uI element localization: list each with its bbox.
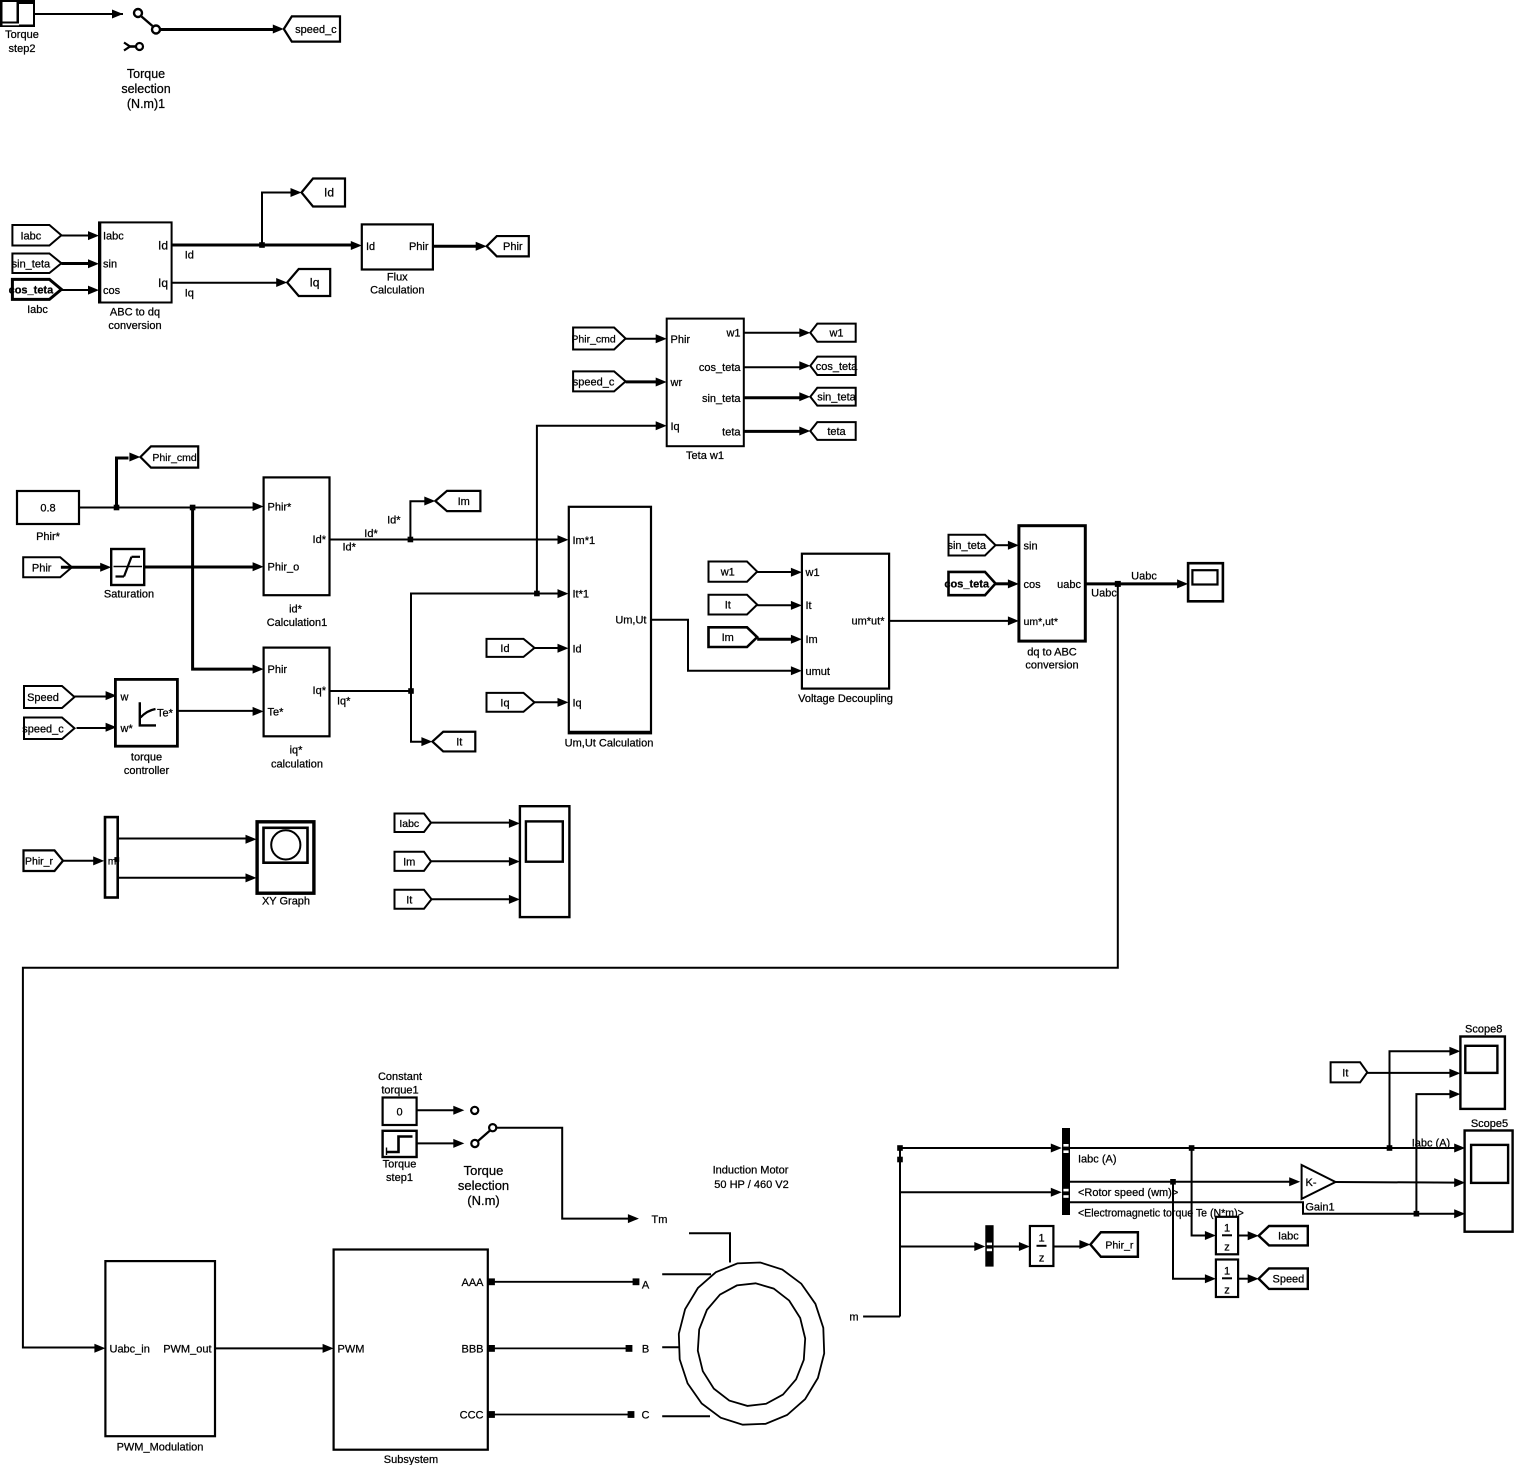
svg-text:Calculation1: Calculation1 [267,617,328,629]
svg-text:Im: Im [403,856,415,868]
svg-text:50 HP / 460 V2: 50 HP / 460 V2 [714,1179,788,1191]
svg-text:(N.m)1: (N.m)1 [127,97,165,111]
svg-text:Id: Id [366,241,375,253]
svg-text:step1: step1 [386,1172,413,1184]
svg-text:Iq: Iq [573,697,582,709]
from tag It (mid) [709,595,758,615]
svg-text:z: z [1224,1285,1230,1297]
svg-text:Iq: Iq [671,421,680,433]
wire Id output of ABC block to Flux Calculation (thick) [172,241,362,262]
svg-text:It: It [806,600,812,612]
svg-text:Phir_r: Phir_r [1105,1240,1134,1252]
unit delay block 1/z (Iabc) [1216,1217,1238,1255]
svg-text:It: It [406,894,412,906]
wire Iq tag to Um,Ut Calculation Iq input [535,698,569,707]
wire w1 output to w1 goto tag [744,328,811,337]
from tag It (Scope8) [1331,1062,1368,1082]
svg-text:PWM_out: PWM_out [163,1343,211,1355]
scope block (Iabc Im It) [520,806,570,917]
scope block (Uabc) [1188,563,1223,601]
wire branch down to It goto tag [411,691,432,746]
wire cos_teta tag to ABC block [61,286,99,295]
wire m to bus selector input 1 [900,1144,1062,1153]
wire switch to Tm arrow [496,1128,667,1226]
svg-text:teta: teta [722,426,741,438]
svg-text:selection: selection [458,1178,509,1193]
motor Tm port stub [689,1233,730,1262]
svg-text:conversion: conversion [1025,660,1078,672]
label Iabc under cos_teta tag [27,304,48,316]
svg-text:PWM: PWM [338,1343,365,1355]
svg-text:Id*: Id* [387,514,401,526]
from tag Iabc (mid bottom) [395,814,432,833]
svg-text:Iabc (A): Iabc (A) [1078,1154,1117,1166]
wire Im tag to Voltage Decoupling (thick) [757,635,802,644]
svg-text:Id: Id [573,643,582,655]
svg-text:cos: cos [1024,579,1042,591]
wire Iabc branch up to Scope8 input 1 [1390,1047,1461,1148]
svg-text:Id*: Id* [343,542,357,554]
wire Speed tag to torque controller w input [75,691,117,700]
svg-text:iq*: iq* [290,745,304,757]
wire branch up to Im goto tag [410,497,435,540]
svg-text:id*: id* [289,604,303,616]
svg-text:1: 1 [1224,1266,1230,1278]
wire bus output Iabc (A) to Scope5 input 1 [1070,1137,1465,1165]
svg-text:A: A [642,1280,650,1292]
svg-text:Scope5: Scope5 [1471,1118,1508,1130]
svg-text:sin: sin [1024,540,1038,552]
svg-text:Tm: Tm [652,1214,668,1226]
goto tag Id [302,179,346,207]
svg-text:XY Graph: XY Graph [262,896,310,908]
svg-text:um*,ut*: um*,ut* [1024,616,1058,628]
svg-text:B: B [642,1344,649,1356]
svg-text:speed_c: speed_c [295,24,337,36]
svg-text:1: 1 [1224,1223,1230,1235]
from tag Im (mid) [709,627,758,647]
wire cos_teta output to cos_teta goto tag [744,361,811,370]
constant block 0.8 (Phir*) [17,491,79,543]
svg-text:Speed: Speed [27,692,59,704]
from tag Im (mid bottom) [395,852,432,871]
svg-text:cos_teta: cos_teta [816,361,858,373]
wire Phir_cmd tag to Teta w1 [626,334,667,343]
wire bus output Rotor speed to Gain1 [1070,1177,1300,1199]
goto tag Speed (bottom) [1259,1268,1308,1289]
wire Phir tag to Saturation (thick) [61,563,111,572]
goto tag Iabc (bottom) [1259,1226,1308,1245]
svg-text:sin_teta: sin_teta [947,540,986,552]
svg-text:dq to ABC: dq to ABC [1027,647,1077,659]
wire Uabc output to scope (thick) [1085,571,1188,600]
svg-text:1: 1 [1039,1233,1045,1245]
svg-text:calculation: calculation [271,759,323,771]
from tag cos_teta (left) [9,279,62,299]
block Voltage Decoupling [798,554,893,705]
svg-text:Saturation: Saturation [104,589,154,601]
wire id* Calculation1 Id* output to Um,Ut Calculation Im*1 input [330,514,569,553]
switch Torque selection (N.m) [458,1124,509,1208]
svg-text:Im*1: Im*1 [573,535,596,547]
svg-text:Uabc_in: Uabc_in [110,1343,150,1355]
block Saturation [104,549,154,601]
wire It tag to scope [432,895,520,904]
block XY Graph [257,822,314,908]
wire sin_teta output to sin_teta goto tag (thick) [744,392,811,401]
svg-text:step2: step2 [9,43,36,55]
svg-text:conversion: conversion [108,320,161,332]
svg-text:(N.m): (N.m) [467,1193,500,1208]
wire cos_teta tag to dq to ABC (thick) [996,579,1019,588]
svg-text:Id*: Id* [364,528,378,540]
from tag Speed [24,686,75,708]
goto tag Iq [287,269,330,296]
svg-text:Phir: Phir [503,241,523,253]
wire branch down to iq* calculation Phir input (thick) [193,508,264,674]
wire sin_teta tag to ABC block (thick) [61,259,99,268]
goto tag Phir_r [1090,1232,1138,1257]
svg-text:Uabc: Uabc [1091,588,1117,600]
svg-text:torque1: torque1 [381,1085,418,1097]
constant block Constant torque1 [378,1071,422,1125]
wire BBB to node B [488,1344,649,1356]
wire speed_c tag to torque controller w* input [77,723,117,732]
svg-text:ABC to dq: ABC to dq [110,307,160,319]
goto tag It [432,732,475,752]
goto tag Im [435,491,480,511]
wire Torque step1 to switch [417,1139,465,1148]
svg-text:Id: Id [324,186,334,200]
wire torque branch up to Scope8 input 3 [1416,1090,1460,1214]
wire Iq output of ABC block to Iq goto tag [172,278,288,300]
from tag sin_teta (right) [947,535,995,556]
block Um,Ut Calculation [565,507,654,750]
svg-text:Phir_cmd: Phir_cmd [152,452,197,464]
goto tag speed_c (top) [284,16,340,41]
svg-text:z: z [1039,1253,1045,1265]
svg-text:cos_teta: cos_teta [699,362,741,374]
svg-text:Te*: Te* [268,707,285,719]
wire selector to unit delay 1/z (Phir_r) [994,1242,1030,1251]
svg-text:uabc: uabc [1057,579,1081,591]
svg-text:w1: w1 [720,567,735,579]
wire teta output to teta goto tag (thick) [744,427,811,436]
wire Uabc feedback line down-left to PWM_Modulation input [23,584,1118,1353]
wire branch down to unit delay (Speed) [1173,1182,1216,1283]
svg-text:Iq*: Iq* [313,685,327,697]
svg-text:speed_c: speed_c [22,723,64,735]
wire branch up to Phir_cmd goto tag (thick) [117,453,141,508]
goto tag Phir [487,236,529,256]
svg-text:Phir: Phir [671,334,691,346]
unit delay block 1/z (Phir_r) [1030,1226,1054,1266]
motor m output stub [849,1312,900,1324]
svg-text:Iabc: Iabc [21,230,42,242]
scope block Scope5 [1465,1118,1513,1232]
block Subsystem [334,1250,488,1467]
svg-text:Torque: Torque [383,1159,417,1171]
selector bar (Phir_r) [985,1225,993,1266]
svg-text:Id: Id [185,250,194,262]
wire bus output Electromagnetic torque to Scope5 input 3 [1070,1202,1465,1219]
from tag Phir [23,557,72,577]
svg-text:Phir: Phir [409,241,429,253]
wire w1 tag to Voltage Decoupling [757,568,802,577]
svg-text:0: 0 [396,1107,402,1119]
svg-text:Phir*: Phir* [36,531,61,543]
svg-text:wr: wr [670,377,683,389]
from tag Phir_r (left) [24,850,64,871]
svg-text:Induction Motor: Induction Motor [713,1165,789,1177]
svg-text:Im: Im [722,632,734,644]
svg-text:cos: cos [103,285,121,297]
svg-text:w: w [120,692,129,704]
from tag speed_c (mid) [573,371,626,391]
svg-text:teta: teta [827,426,846,438]
svg-text:Iabc: Iabc [27,304,48,316]
svg-text:w1: w1 [805,567,820,579]
motor C port stub [662,1415,710,1417]
svg-text:controller: controller [124,765,170,777]
wire branch down to unit delay (Iabc) [1192,1148,1216,1240]
wire m to selector (Phir_r) input [900,1242,985,1251]
wire switch to speed_c tag [160,25,284,34]
block id* Calculation1 [264,477,330,629]
wire demux output 1 to XY Graph [118,835,257,844]
svg-text:w1: w1 [725,328,740,340]
wire PWM_out to Subsystem PWM input [215,1344,334,1353]
wire torque controller Te* to iq* calculation Te* input [177,707,263,716]
block Teta w1 [667,319,744,462]
svg-text:Subsystem: Subsystem [384,1454,438,1465]
svg-text:w*: w* [120,723,134,735]
svg-text:um*ut*: um*ut* [851,616,885,628]
gain block Gain1 [1302,1165,1336,1214]
from tag cos_teta (right) [944,572,995,595]
from tag w1 (mid) [709,562,758,582]
svg-text:Speed: Speed [1272,1274,1304,1286]
wire branch up to Id goto tag [262,188,302,245]
svg-text:selection: selection [121,82,170,96]
svg-text:Voltage Decoupling: Voltage Decoupling [798,693,893,705]
svg-text:Torque: Torque [127,67,165,81]
svg-text:Gain1: Gain1 [1305,1202,1334,1214]
block PWM_Modulation [105,1261,215,1453]
svg-text:Iabc (A): Iabc (A) [1412,1137,1451,1149]
svg-text:CCC: CCC [460,1410,484,1422]
goto tag teta [810,422,855,440]
wire AAA to node A [488,1278,650,1291]
from tag Iabc (left) [12,225,61,246]
wire iq* calculation Iq* output junction [330,688,414,707]
wire Id tag to Um,Ut Calculation Id input [535,644,569,653]
svg-text:PWM_Modulation: PWM_Modulation [117,1442,204,1454]
svg-text:Calculation: Calculation [370,285,424,297]
svg-text:<Rotor speed (wm)>: <Rotor speed (wm)> [1078,1187,1178,1199]
svg-text:Iq: Iq [309,276,319,290]
svg-text:Iq: Iq [500,697,509,709]
wire Torque step2 to Torque selection switch [35,10,123,19]
svg-text:torque: torque [131,752,162,764]
wire sin_teta tag to dq to ABC [996,541,1019,550]
source block Torque step1 (step icon) [383,1131,417,1184]
goto tag sin_teta [810,388,856,406]
svg-text:umut: umut [806,666,830,678]
wire It tag to Voltage Decoupling [757,601,802,610]
switch Torque selection (N.m)1 [121,9,170,111]
svg-text:Id: Id [500,643,509,655]
wire Phir_r tag to demux [63,856,104,865]
switch contact upper (constant) [471,1107,478,1114]
svg-text:sin_teta: sin_teta [817,392,856,404]
svg-text:Phir*: Phir* [268,502,293,514]
svg-text:Flux: Flux [387,272,408,284]
svg-text:It*1: It*1 [573,589,590,601]
induction motor block (two rings) [679,1165,824,1425]
svg-text:It: It [725,600,731,612]
block Flux Calculation [362,224,433,296]
svg-text:AAA: AAA [461,1277,484,1289]
svg-text:Phir_cmd: Phir_cmd [571,334,616,346]
block dq to ABC conversion [1019,526,1085,672]
wire branch up and right to Um,Ut Calculation It*1 input [411,589,569,691]
wire m to bus selector input 2 [900,1188,1062,1197]
scope block Scope8 [1460,1024,1505,1109]
svg-text:Um,Ut Calculation: Um,Ut Calculation [565,738,654,750]
svg-text:Scope8: Scope8 [1465,1024,1502,1036]
svg-text:It: It [456,737,462,749]
svg-text:Iabc: Iabc [399,818,419,830]
wire Um,Ut output to Voltage Decoupling umut input [651,620,802,676]
svg-text:Id: Id [158,239,168,253]
svg-text:Phir: Phir [32,562,52,574]
block ABC to dq conversion [99,222,172,332]
svg-text:m: m [849,1312,858,1324]
svg-text:w1: w1 [828,328,843,340]
from tag sin_teta (left) [12,254,62,274]
wire Voltage Decoupling output to dq to ABC um*,ut* input [889,616,1019,625]
bus selector (machine measurement demux) [1062,1128,1070,1215]
wire Constant torque1 to switch [417,1106,465,1115]
svg-text:z: z [1224,1242,1230,1254]
svg-text:sin: sin [103,259,117,271]
svg-text:Iq: Iq [185,288,194,300]
wire unit delay to Iabc goto tag [1238,1231,1259,1240]
unit delay block 1/z (Speed) [1216,1260,1238,1298]
svg-text:Phir_r: Phir_r [25,856,54,868]
wire 0.8 to id* Calculation1 Phir* input [79,502,264,511]
svg-text:sin_teta: sin_teta [702,393,741,405]
demux (mux bar) for XY Graph [105,817,119,897]
svg-text:sin_teta: sin_teta [12,258,51,270]
svg-text:cos_teta: cos_teta [944,579,990,591]
wire Iabc tag to ABC block [61,231,99,240]
source block Torque step2 (step icon, clipped at top) [0,0,39,55]
wire unit delay to Speed goto tag [1238,1274,1259,1283]
from tag speed_c (lower) [22,718,74,740]
svg-text:Iq*: Iq* [337,696,351,708]
svg-text:K-: K- [1306,1177,1317,1189]
from tag Iq (mid) [487,693,535,712]
from tag Id (mid) [487,639,535,657]
wire Im tag to scope [431,857,520,866]
svg-text:Uabc: Uabc [1131,571,1157,583]
from tag It (mid bottom) [395,890,432,909]
svg-text:cos_teta: cos_teta [9,284,55,296]
wire Saturation to id* Calculation1 Phir_o input (thick) [144,562,263,571]
svg-text:Phir: Phir [268,664,288,676]
svg-text:Phir_o: Phir_o [268,562,300,574]
svg-text:Im: Im [458,496,470,508]
wire CCC to node C [488,1410,649,1422]
block iq* calculation [264,648,330,771]
wire It tag to Scope8 input 2 [1367,1069,1460,1078]
svg-text:Te*: Te* [157,707,174,719]
wire branch up to Teta w1 Iq input [537,421,667,593]
svg-text:Constant: Constant [378,1071,422,1083]
from tag Phir_cmd [571,328,625,350]
svg-text:Torque: Torque [5,29,39,41]
svg-text:Im: Im [806,634,818,646]
svg-text:Iabc: Iabc [1278,1231,1299,1243]
svg-text:It: It [1342,1067,1348,1079]
wire demux output 2 to XY Graph [118,873,257,882]
svg-text:speed_c: speed_c [573,376,615,388]
svg-text:C: C [642,1410,650,1422]
svg-text:Torque: Torque [464,1163,504,1178]
wire Flux Calculation to Phir goto tag (thick) [433,242,487,251]
wire m vertical bus line [897,1145,903,1316]
svg-text:Iq: Iq [158,276,168,290]
svg-text:Id*: Id* [313,534,327,546]
svg-text:Um,Ut: Um,Ut [615,615,646,627]
svg-text:Teta w1: Teta w1 [686,450,724,462]
wire unit delay to Phir_r goto tag [1053,1240,1090,1249]
goto tag Phir_cmd [140,446,198,467]
goto tag cos_teta [810,357,858,375]
wire Gain1 to Scope5 input 2 [1336,1178,1466,1187]
wire speed_c tag to Teta w1 (thick) [626,378,667,387]
motor A port stub [662,1273,711,1275]
svg-text:Iabc: Iabc [103,231,124,243]
goto tag w1 [810,324,855,342]
svg-text:0.8: 0.8 [40,503,55,515]
wire Iabc tag to scope [431,819,520,828]
block torque controller [115,679,177,777]
motor B port stub [662,1346,679,1348]
svg-text:BBB: BBB [461,1343,483,1355]
